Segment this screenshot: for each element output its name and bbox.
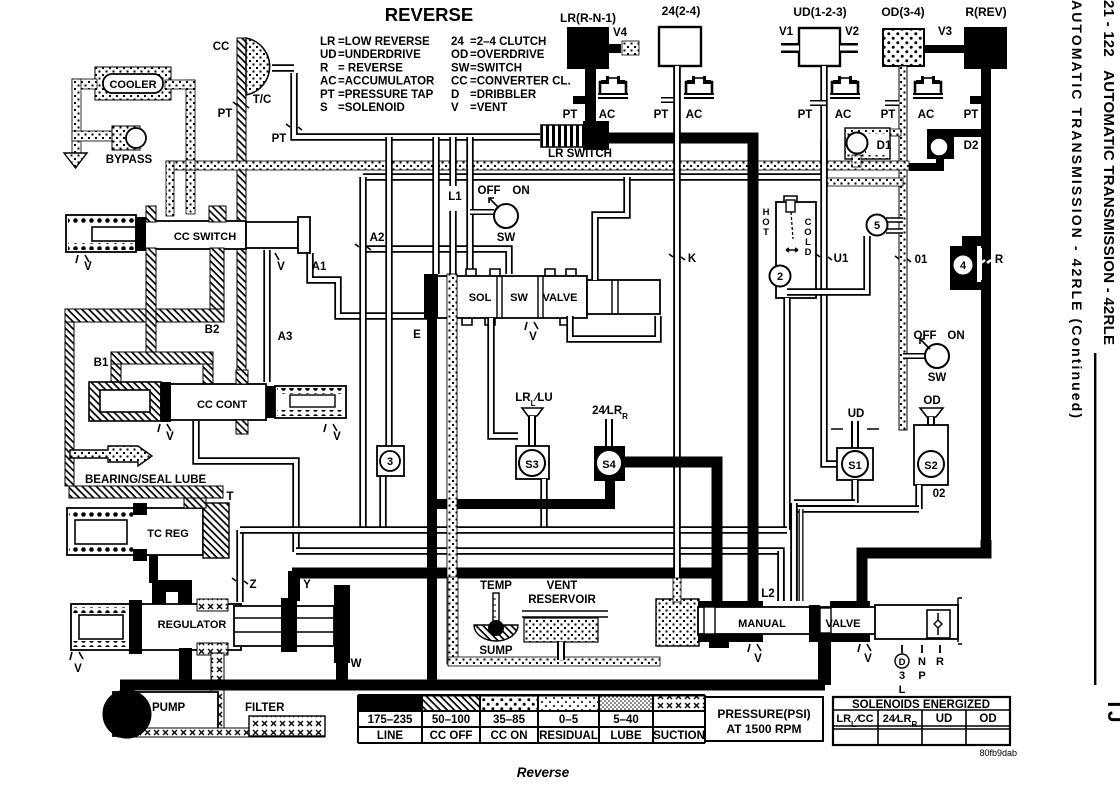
bearing seal lube arrow bbox=[70, 446, 152, 466]
svg-text:35–85: 35–85 bbox=[493, 714, 526, 726]
CC cont drain bbox=[196, 421, 296, 552]
S3 drain bbox=[540, 479, 547, 528]
S4 output thick bbox=[625, 462, 717, 601]
L1 label bbox=[448, 191, 462, 203]
caption Reverse bbox=[517, 765, 570, 780]
svg-text:D: D bbox=[899, 657, 906, 668]
H3 double line bbox=[363, 173, 826, 180]
break R bbox=[981, 254, 1004, 266]
right margin rule bbox=[1094, 353, 1096, 685]
pipe B1 vertical bbox=[146, 248, 156, 352]
line sol stipple top bbox=[449, 137, 456, 274]
svg-text:02: 02 bbox=[933, 488, 946, 500]
svg-text:=UNDERDRIVE: =UNDERDRIVE bbox=[338, 49, 421, 61]
solenoid S4 bbox=[592, 405, 628, 481]
svg-text:AC: AC bbox=[918, 109, 935, 121]
stipple line UD-OD bbox=[826, 178, 903, 186]
svg-text:AC: AC bbox=[686, 109, 703, 121]
manual valve end bbox=[875, 598, 962, 644]
svg-text:OFF: OFF bbox=[478, 185, 501, 197]
bus B2 bbox=[296, 551, 781, 601]
svg-text:PT: PT bbox=[654, 109, 669, 121]
regulator bottom stub bbox=[179, 648, 192, 686]
svg-text:SUCTION: SUCTION bbox=[653, 730, 705, 742]
svg-text:FILTER: FILTER bbox=[245, 702, 285, 714]
bus B1 bbox=[240, 526, 787, 533]
vent V manual bbox=[748, 644, 762, 665]
circle 2 bbox=[770, 266, 791, 287]
line T/C to LR switch bbox=[294, 73, 540, 137]
gear labels bbox=[895, 645, 944, 696]
svg-text:24(2-4): 24(2-4) bbox=[662, 4, 701, 18]
CC switch spring chamber bbox=[66, 215, 136, 252]
TC reg to regulator bbox=[149, 555, 192, 606]
switch SW2 bbox=[903, 330, 965, 384]
LR PT label bbox=[563, 109, 578, 121]
main pressure bottom line bbox=[120, 680, 825, 691]
LR switch label bbox=[548, 148, 612, 160]
svg-text:=CONVERTER CL.: =CONVERTER CL. bbox=[470, 76, 571, 88]
svg-text:AC: AC bbox=[835, 109, 852, 121]
pump label bbox=[152, 702, 186, 714]
S2 drain bbox=[915, 485, 922, 509]
svg-text:BEARING/SEAL LUBE: BEARING/SEAL LUBE bbox=[85, 474, 207, 486]
cold label bbox=[804, 217, 811, 258]
svg-text:LR SWITCH: LR SWITCH bbox=[548, 148, 612, 160]
svg-text:01: 01 bbox=[915, 254, 928, 266]
UD PT tee bbox=[810, 100, 826, 106]
clutch OD(3-4) bbox=[881, 5, 924, 66]
svg-text:S1: S1 bbox=[848, 460, 861, 472]
svg-text:U1: U1 bbox=[834, 253, 849, 265]
svg-text:SW: SW bbox=[928, 372, 947, 384]
svg-text:D: D bbox=[805, 247, 812, 258]
svg-text:PT: PT bbox=[272, 133, 287, 145]
sol valve bottom U bbox=[570, 316, 658, 339]
T/C label CC bbox=[213, 41, 230, 53]
svg-text:L: L bbox=[899, 684, 906, 696]
svg-text:A1: A1 bbox=[312, 261, 327, 273]
temp thermometer bbox=[474, 580, 518, 657]
stipple main line bbox=[166, 161, 909, 170]
OD PT label bbox=[881, 109, 896, 121]
T label bbox=[226, 491, 233, 503]
bypass label bbox=[106, 154, 153, 166]
svg-text:UD: UD bbox=[848, 408, 865, 420]
hot label bbox=[762, 207, 769, 238]
solenoid S3 bbox=[515, 392, 552, 479]
svg-text:=PRESSURE TAP: =PRESSURE TAP bbox=[338, 89, 434, 101]
manual valve bottom rail bbox=[698, 601, 870, 648]
svg-text:S2: S2 bbox=[924, 460, 937, 472]
Z line bbox=[232, 530, 257, 602]
sol valve stipple pipe bbox=[447, 274, 457, 664]
svg-text:CC: CC bbox=[213, 41, 230, 53]
regulator right rails bbox=[234, 585, 350, 663]
svg-text:Y: Y bbox=[303, 579, 311, 591]
sol sw valve body bbox=[424, 274, 587, 318]
T/C PT tap bbox=[272, 124, 302, 145]
CC cont right chamber bbox=[266, 386, 346, 418]
svg-text:V: V bbox=[166, 431, 174, 443]
manual valve down stub bbox=[818, 640, 831, 685]
sol valve S3 line bbox=[491, 318, 518, 436]
A1 label bbox=[312, 261, 327, 273]
svg-text:ON: ON bbox=[947, 330, 964, 342]
svg-text:CC ON: CC ON bbox=[490, 730, 527, 742]
clutch R(REV) bbox=[964, 5, 1007, 69]
valve feed pair 1 bbox=[777, 551, 784, 601]
pipe B1 loop bbox=[111, 352, 213, 386]
svg-text:175–235: 175–235 bbox=[368, 714, 413, 726]
svg-text:V: V bbox=[74, 663, 82, 675]
cooler pipe drop join bbox=[186, 160, 195, 170]
TC reg body bbox=[67, 503, 203, 561]
vent V3 bbox=[924, 26, 964, 53]
right margin TJ bbox=[1103, 698, 1120, 723]
svg-text:S3: S3 bbox=[525, 459, 538, 471]
svg-text:AC: AC bbox=[599, 109, 616, 121]
torque converter bbox=[246, 38, 271, 106]
regulator x patches bbox=[197, 599, 228, 655]
OD accumulator bbox=[913, 76, 943, 121]
break O1 bbox=[895, 254, 928, 266]
S drop to valve bbox=[790, 503, 797, 601]
svg-text:AC: AC bbox=[320, 76, 337, 88]
bottom suction strip bbox=[118, 728, 325, 737]
pump enclosure bbox=[113, 692, 218, 736]
svg-text:Reverse: Reverse bbox=[517, 765, 570, 780]
svg-text:LUBE: LUBE bbox=[610, 730, 642, 742]
sol valve right spool bbox=[587, 280, 660, 314]
vent V1 bbox=[779, 26, 799, 48]
solenoid S2 bbox=[914, 395, 948, 485]
svg-text:OFF: OFF bbox=[914, 330, 937, 342]
legend bbox=[320, 36, 571, 114]
pipe B2 vertical bbox=[210, 248, 224, 311]
svg-text:24: 24 bbox=[451, 36, 464, 48]
svg-text:=VENT: =VENT bbox=[470, 102, 507, 114]
svg-text:D1: D1 bbox=[877, 140, 892, 152]
CC cont left chamber bbox=[89, 382, 161, 421]
E label bbox=[413, 329, 421, 341]
svg-text:A2: A2 bbox=[370, 232, 385, 244]
svg-text:N: N bbox=[918, 656, 926, 668]
svg-text:B2: B2 bbox=[205, 324, 220, 336]
CC switch body bbox=[136, 217, 246, 251]
svg-text:LINE: LINE bbox=[377, 730, 404, 742]
O2 label bbox=[933, 488, 946, 500]
svg-text:0–5: 0–5 bbox=[559, 714, 579, 726]
UD accumulator bbox=[830, 76, 860, 121]
line A2 vertical bbox=[359, 177, 366, 530]
svg-text:3: 3 bbox=[899, 670, 905, 682]
svg-text:T: T bbox=[226, 491, 233, 503]
svg-text:PT: PT bbox=[881, 109, 896, 121]
overlay sol stipple pipe bbox=[447, 274, 457, 664]
svg-text:=OVERDRIVE: =OVERDRIVE bbox=[470, 49, 545, 61]
svg-text:80fb9dab: 80fb9dab bbox=[979, 748, 1017, 758]
svg-text:CC CONT: CC CONT bbox=[197, 399, 247, 411]
svg-text:P: P bbox=[918, 670, 925, 682]
svg-text:REGULATOR: REGULATOR bbox=[158, 619, 227, 631]
W stub bbox=[336, 650, 362, 682]
CC cont hatch bits bbox=[236, 370, 248, 434]
Y stub bbox=[288, 571, 311, 601]
vent V cc cont right bbox=[324, 424, 341, 443]
line U1 lower bbox=[824, 177, 838, 464]
24 stem bbox=[673, 66, 680, 580]
LR stem bbox=[573, 69, 596, 126]
line A2 branch to sol bbox=[363, 249, 509, 274]
OD stem bbox=[899, 66, 907, 430]
svg-text:=SWITCH: =SWITCH bbox=[470, 62, 522, 74]
svg-text:=ACCUMULATOR: =ACCUMULATOR bbox=[338, 76, 435, 88]
svg-text:SW: SW bbox=[510, 292, 528, 304]
svg-text:A3: A3 bbox=[278, 331, 293, 343]
solenoids energized table bbox=[833, 697, 1010, 745]
hot cold box bbox=[776, 196, 816, 298]
svg-text:W: W bbox=[351, 658, 362, 670]
svg-text:50–100: 50–100 bbox=[432, 714, 470, 726]
suction channel bbox=[448, 577, 660, 666]
svg-text:L2: L2 bbox=[761, 588, 774, 600]
24 PT tee bbox=[661, 97, 677, 103]
svg-text:SW: SW bbox=[451, 62, 470, 74]
svg-text:V: V bbox=[864, 653, 872, 665]
svg-text:R(REV): R(REV) bbox=[965, 5, 1006, 19]
svg-text:=DRIBBLER: =DRIBBLER bbox=[470, 89, 537, 101]
svg-text:V: V bbox=[529, 331, 537, 343]
circle 3 component bbox=[377, 446, 404, 530]
vent V cc switch right bbox=[266, 253, 285, 273]
svg-text:OD(3-4): OD(3-4) bbox=[881, 5, 924, 19]
svg-text:OD: OD bbox=[451, 49, 468, 61]
right margin continued bbox=[1069, 0, 1085, 418]
clutch LR(R-N-1) bbox=[560, 11, 616, 69]
line A3 bbox=[263, 250, 270, 382]
svg-text:TC REG: TC REG bbox=[147, 528, 189, 540]
svg-text:UD(1-2-3): UD(1-2-3) bbox=[793, 5, 846, 19]
svg-text:LR: LR bbox=[320, 36, 336, 48]
cooler right pipe bbox=[165, 80, 195, 214]
svg-text:4: 4 bbox=[960, 260, 967, 272]
svg-text:PT: PT bbox=[320, 89, 335, 101]
line LR switch to right bbox=[596, 138, 753, 601]
24 accumulator bbox=[684, 76, 714, 121]
B2 label bbox=[205, 324, 220, 336]
svg-text:S: S bbox=[320, 102, 328, 114]
S4 drain thick bbox=[432, 481, 610, 504]
svg-text:= REVERSE: = REVERSE bbox=[338, 62, 403, 74]
24 line stipple tail bbox=[673, 578, 681, 602]
R elbow thick bbox=[862, 540, 986, 601]
svg-text:SW: SW bbox=[497, 232, 516, 244]
clutch UD(1-2-3) bbox=[793, 5, 846, 66]
cooler bbox=[95, 67, 171, 100]
vent V manual 2 bbox=[858, 644, 872, 665]
svg-text:=2–4 CLUTCH: =2–4 CLUTCH bbox=[470, 36, 546, 48]
svg-text:UD: UD bbox=[936, 713, 953, 725]
T/C PT left bbox=[218, 102, 249, 120]
bypass valve bbox=[112, 126, 146, 150]
line L1 bbox=[466, 137, 473, 276]
sol valve top U bbox=[595, 177, 627, 280]
svg-text:21 - 122 AUTOMATIC TRANSMISS: 21 - 122 AUTOMATIC TRANSMISSION - 42RLE bbox=[1100, 0, 1117, 345]
sol valve nubs bbox=[462, 269, 576, 325]
TC reg piston bbox=[184, 498, 229, 558]
svg-text:V1: V1 bbox=[779, 26, 794, 38]
svg-text:T/C: T/C bbox=[253, 94, 272, 106]
R PT label bbox=[964, 109, 979, 121]
T/C right pipe bbox=[272, 64, 294, 71]
svg-text:OD: OD bbox=[923, 395, 940, 407]
svg-text:COOLER: COOLER bbox=[109, 79, 156, 91]
right margin header bbox=[1100, 0, 1117, 345]
dribbler D1 bbox=[845, 128, 901, 167]
svg-text:PUMP: PUMP bbox=[152, 702, 186, 714]
svg-text:TJ: TJ bbox=[1103, 698, 1120, 723]
CC switch top ports bbox=[146, 206, 226, 222]
cooler drain arrow bbox=[64, 153, 87, 168]
UD PT label bbox=[798, 109, 813, 121]
LR accumulator bbox=[598, 76, 628, 121]
svg-text:2: 2 bbox=[777, 271, 783, 283]
svg-text:PRESSURE(PSI): PRESSURE(PSI) bbox=[717, 707, 810, 721]
OD PT tee bbox=[885, 100, 899, 106]
bearing seal lube label bbox=[85, 474, 207, 486]
svg-text:CC: CC bbox=[451, 76, 468, 88]
svg-text:Z: Z bbox=[249, 579, 256, 591]
line circle3 vertical bbox=[385, 137, 392, 448]
pressure psi box bbox=[705, 697, 823, 741]
regulator body bbox=[71, 600, 241, 654]
switch SW1 bbox=[470, 185, 530, 244]
A3 label bbox=[278, 331, 293, 343]
svg-text:V3: V3 bbox=[938, 26, 952, 38]
solenoid S1 bbox=[831, 408, 879, 480]
pipe B2 left drop bbox=[65, 322, 74, 486]
svg-text:REVERSE: REVERSE bbox=[385, 4, 473, 25]
svg-text:V4: V4 bbox=[613, 27, 628, 39]
circle 5 bbox=[787, 215, 903, 293]
svg-text:V: V bbox=[754, 653, 762, 665]
svg-text:SOL: SOL bbox=[469, 292, 492, 304]
filter label bbox=[245, 702, 285, 714]
svg-text:BYPASS: BYPASS bbox=[106, 154, 153, 166]
vent V sol bbox=[525, 322, 538, 343]
svg-text:V: V bbox=[333, 431, 341, 443]
R stem bbox=[970, 69, 991, 556]
svg-text:VALVE: VALVE bbox=[825, 618, 860, 630]
vent V cc switch left bbox=[76, 255, 92, 273]
circle2 drain bbox=[783, 298, 790, 530]
stipple blob bbox=[656, 599, 699, 646]
svg-text:OD: OD bbox=[979, 713, 996, 725]
figure number bbox=[979, 748, 1017, 758]
L2 label bbox=[761, 588, 774, 600]
svg-text:CC SWITCH: CC SWITCH bbox=[174, 231, 236, 243]
svg-text:CC OFF: CC OFF bbox=[430, 730, 473, 742]
S line 1 bbox=[794, 499, 855, 506]
E thick line bbox=[427, 318, 437, 685]
svg-text:V: V bbox=[277, 261, 285, 273]
svg-text:5–40: 5–40 bbox=[613, 714, 639, 726]
svg-text:LR(R-N-1): LR(R-N-1) bbox=[560, 11, 616, 25]
svg-text:E: E bbox=[413, 329, 421, 341]
pump circle bbox=[103, 690, 151, 738]
CC switch right spool bbox=[246, 217, 310, 253]
vent reservoir bbox=[522, 580, 608, 660]
svg-text:PT: PT bbox=[798, 109, 813, 121]
valve feed pair 2 bbox=[790, 509, 797, 601]
T/C pipe bbox=[237, 38, 246, 385]
svg-text:RESIDUAL: RESIDUAL bbox=[539, 730, 598, 742]
valve feed pair 3 bbox=[799, 509, 804, 601]
svg-text:AUTOMATIC TRANSMISSION - 42RLE: AUTOMATIC TRANSMISSION - 42RLE (Continue… bbox=[1069, 0, 1085, 418]
svg-text:R: R bbox=[936, 656, 944, 668]
line A1 bbox=[310, 253, 427, 316]
manual valve top rail bbox=[698, 601, 763, 608]
svg-text:AT 1500 RPM: AT 1500 RPM bbox=[726, 722, 801, 736]
svg-text:PT: PT bbox=[964, 109, 979, 121]
filter block bbox=[249, 716, 325, 736]
overlay UD line bbox=[820, 140, 827, 178]
svg-text:SOLENOIDS ENERGIZED: SOLENOIDS ENERGIZED bbox=[852, 699, 990, 711]
break A2 bbox=[355, 232, 384, 250]
svg-text:B1: B1 bbox=[94, 357, 109, 369]
CC cont body bbox=[161, 382, 266, 422]
dribbler D2 bbox=[909, 129, 981, 171]
title REVERSE bbox=[385, 4, 473, 25]
svg-text:ON: ON bbox=[512, 185, 529, 197]
bearing lube bar bbox=[69, 486, 223, 498]
svg-text:R: R bbox=[320, 62, 329, 74]
svg-text:S4: S4 bbox=[602, 459, 616, 471]
svg-text:D2: D2 bbox=[964, 140, 979, 152]
line to SOL valve E bbox=[432, 137, 439, 274]
svg-text:RESERVOIR: RESERVOIR bbox=[528, 594, 596, 606]
svg-text:UD: UD bbox=[320, 49, 337, 61]
S line 2 bbox=[794, 505, 919, 512]
svg-text:L1: L1 bbox=[448, 191, 462, 203]
svg-text:3: 3 bbox=[387, 456, 393, 468]
pipe B2 horizontal bbox=[65, 309, 224, 322]
overlay 24 line bbox=[673, 66, 680, 580]
stipple line left drop bbox=[166, 161, 174, 216]
overlay L2 thick bbox=[748, 143, 759, 601]
vent V cc cont left bbox=[158, 424, 174, 443]
svg-text:TEMP: TEMP bbox=[480, 580, 512, 592]
svg-text:VALVE: VALVE bbox=[542, 292, 577, 304]
svg-text:5: 5 bbox=[874, 220, 880, 232]
svg-text:PT: PT bbox=[218, 108, 233, 120]
vent V regulator bbox=[70, 652, 83, 675]
LR switch bbox=[541, 121, 609, 150]
UD stem bbox=[820, 66, 827, 178]
svg-text:=LOW REVERSE: =LOW REVERSE bbox=[338, 36, 430, 48]
pressure legend table bbox=[358, 695, 705, 743]
svg-text:D: D bbox=[451, 89, 459, 101]
svg-text:SUMP: SUMP bbox=[479, 645, 513, 657]
B1 label bbox=[94, 357, 109, 369]
svg-text:MANUAL: MANUAL bbox=[738, 618, 786, 630]
svg-text:=SOLENOID: =SOLENOID bbox=[338, 102, 405, 114]
vent V2 bbox=[840, 26, 859, 48]
svg-text:V: V bbox=[84, 261, 92, 273]
svg-text:R: R bbox=[995, 254, 1004, 266]
suction pipe bbox=[211, 653, 224, 736]
